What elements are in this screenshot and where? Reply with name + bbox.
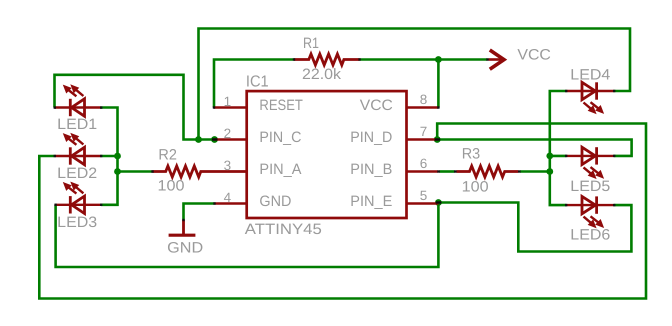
wire pin7 to LED5 cathode [437, 140, 631, 156]
svg-text:LED4: LED4 [570, 66, 610, 83]
svg-text:LED6: LED6 [570, 226, 610, 243]
svg-text:22.0k: 22.0k [302, 66, 342, 83]
svg-text:GND: GND [259, 193, 291, 210]
pin 2 lead [215, 138, 247, 140]
resistor R1 [294, 54, 360, 65]
svg-text:LED3: LED3 [57, 214, 97, 231]
svg-text:PIN_D: PIN_D [350, 129, 392, 146]
pin 7 lead [408, 138, 438, 140]
node VCC junction [435, 56, 442, 63]
LED LED1 [55, 86, 101, 117]
svg-text:6: 6 [420, 156, 428, 171]
node R3 junction [546, 168, 553, 175]
svg-text:R1: R1 [303, 35, 319, 52]
svg-text:1: 1 [224, 94, 232, 109]
ground symbol [169, 220, 196, 235]
wire left anode bus [101, 108, 118, 205]
LED LED6 [567, 196, 615, 227]
svg-text:PIN_A: PIN_A [259, 161, 301, 178]
LED LED3 [55, 183, 101, 214]
wire R2 left stub [118, 170, 153, 173]
pin 4 lead [215, 202, 247, 204]
svg-text:VCC: VCC [517, 47, 551, 64]
svg-text:IC1: IC1 [246, 73, 269, 90]
wire pin4 to GND [184, 204, 215, 221]
svg-text:7: 7 [420, 124, 428, 139]
pin 5 lead [408, 202, 439, 204]
node pin5 junction [435, 199, 442, 206]
wire LED3 cathode loop to pin5 [56, 203, 439, 268]
svg-text:LED5: LED5 [570, 178, 610, 195]
svg-text:LED2: LED2 [57, 165, 97, 182]
svg-text:GND: GND [167, 239, 203, 256]
IC IC1 box [247, 91, 407, 218]
pin 6 lead [408, 170, 438, 172]
wire pin5 to LED6 cathode [438, 203, 631, 252]
node R2 junction [114, 168, 121, 175]
svg-text:R2: R2 [158, 147, 177, 164]
svg-text:100: 100 [462, 179, 489, 196]
junction end marks (dark) [54, 58, 616, 221]
wire pin6 to R3 [440, 170, 455, 173]
VCC arrow symbol [489, 50, 505, 69]
pin 8 lead [408, 106, 439, 108]
svg-text:3: 3 [224, 158, 232, 173]
svg-text:4: 4 [224, 190, 232, 205]
resistor R2 [153, 166, 247, 177]
IC pin leads [214, 108, 438, 204]
wire LED1 cathode loop to pin2 [55, 75, 215, 140]
wire R3 right stub [520, 170, 550, 173]
wire R1 right to VCC arrow [360, 58, 488, 61]
node pin2 junction A [195, 136, 202, 143]
svg-text:R3: R3 [462, 146, 481, 163]
pin6 wire end junction marks [437, 170, 520, 172]
resistor R3 [457, 166, 519, 177]
svg-text:5: 5 [420, 188, 428, 203]
svg-text:LED1: LED1 [57, 116, 97, 133]
svg-text:VCC: VCC [360, 97, 393, 114]
wire R1 VCC net [214, 60, 294, 108]
pin-end black overlap bars [212, 138, 442, 203]
LED LED4 [567, 82, 615, 113]
wire right anode bus [550, 91, 567, 205]
wire LED5 anode stub [550, 155, 567, 158]
wire LED2 cathode long loop to pin7 [39, 124, 646, 299]
pin 1 lead [214, 106, 247, 108]
svg-text:100: 100 [158, 178, 185, 195]
LED LED2 [55, 134, 101, 165]
svg-text:8: 8 [420, 92, 428, 107]
LED LED5 [567, 147, 615, 178]
node LED5 anode junction [546, 153, 553, 160]
wire top net pin2 to LED4 cathode [199, 29, 631, 140]
node LED2 anode junction [114, 153, 121, 160]
node pin7 junction [434, 136, 441, 143]
svg-text:PIN_C: PIN_C [259, 129, 301, 146]
node pin2 junction B [211, 136, 218, 143]
wire pin8 VCC riser [437, 60, 440, 108]
svg-text:PIN_B: PIN_B [350, 161, 392, 178]
svg-text:PIN_E: PIN_E [350, 193, 392, 210]
svg-text:RESET: RESET [259, 97, 303, 114]
pin numbers [224, 92, 428, 205]
wire LED2 anode stub [101, 155, 118, 158]
svg-text:2: 2 [224, 126, 232, 141]
svg-text:ATTINY45: ATTINY45 [245, 221, 322, 238]
